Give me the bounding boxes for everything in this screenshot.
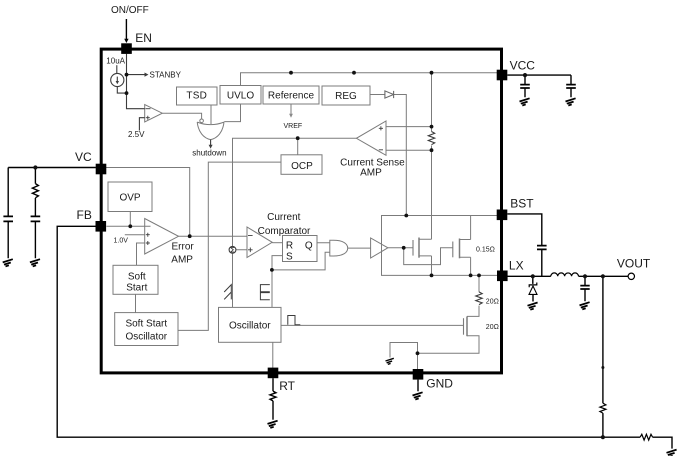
svg-text:VOUT: VOUT <box>617 257 651 271</box>
svg-text:GND: GND <box>426 376 453 390</box>
svg-text:10uA: 10uA <box>106 57 125 66</box>
svg-text:Current: Current <box>267 212 301 223</box>
svg-text:ON/OFF: ON/OFF <box>111 5 149 16</box>
svg-text:BST: BST <box>510 197 534 211</box>
svg-text:STANBY: STANBY <box>150 71 182 80</box>
svg-text:0.15Ω: 0.15Ω <box>476 246 495 253</box>
svg-text:R: R <box>286 240 293 251</box>
svg-text:20Ω: 20Ω <box>486 324 499 331</box>
svg-text:VREF: VREF <box>284 123 303 130</box>
svg-text:VCC: VCC <box>510 59 536 73</box>
svg-text:AMP: AMP <box>171 254 193 265</box>
svg-text:OCP: OCP <box>291 161 313 172</box>
svg-text:RT: RT <box>279 379 295 393</box>
svg-text:Comparator: Comparator <box>258 226 311 237</box>
svg-text:REG: REG <box>335 91 357 102</box>
svg-text:Error: Error <box>172 242 195 253</box>
svg-text:S: S <box>286 252 293 263</box>
svg-text:Oscillator: Oscillator <box>229 320 271 331</box>
svg-text:FB: FB <box>77 208 92 222</box>
svg-text:VC: VC <box>75 150 92 164</box>
svg-text:Start: Start <box>126 283 147 294</box>
svg-text:Reference: Reference <box>268 91 315 102</box>
svg-text:2.5V: 2.5V <box>128 130 145 139</box>
svg-text:LX: LX <box>509 258 524 272</box>
svg-text:Soft: Soft <box>128 271 146 282</box>
svg-text:Soft Start: Soft Start <box>125 319 167 330</box>
svg-text:OVP: OVP <box>119 193 140 204</box>
svg-text:20Ω: 20Ω <box>486 298 499 305</box>
svg-text:AMP: AMP <box>360 167 382 178</box>
svg-text:shutdown: shutdown <box>192 149 226 158</box>
svg-text:TSD: TSD <box>186 90 207 101</box>
svg-text:EN: EN <box>135 31 152 45</box>
svg-text:1.0V: 1.0V <box>114 237 129 244</box>
svg-text:Oscillator: Oscillator <box>125 332 167 343</box>
svg-text:Q: Q <box>305 240 313 251</box>
svg-text:UVLO: UVLO <box>227 90 254 101</box>
